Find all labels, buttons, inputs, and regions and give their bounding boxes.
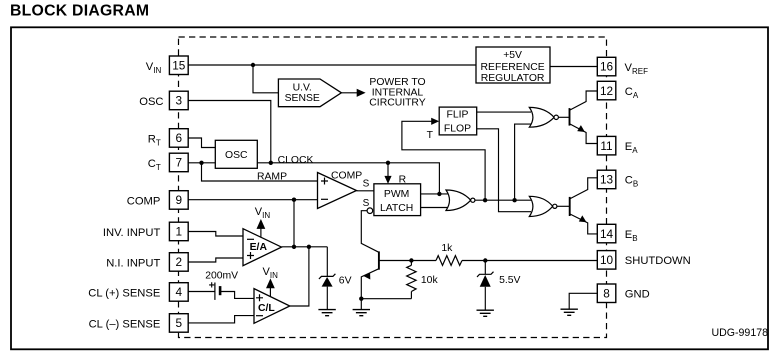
svg-text:5.5V: 5.5V	[499, 275, 520, 286]
resistor 1k	[436, 256, 462, 266]
svg-text:200mV: 200mV	[205, 270, 238, 281]
wire QA collector to pin12	[570, 91, 598, 110]
wire R reset stub to PWM latch	[387, 163, 389, 177]
pin 7 CT box	[169, 153, 188, 172]
LEFT PIN LABELS	[88, 61, 163, 331]
pin 15 VIN box	[169, 56, 188, 75]
latch Sbar input bubble	[367, 208, 373, 214]
+5V reference regulator block	[476, 47, 550, 83]
svg-text:R: R	[399, 175, 407, 186]
wire COMP line down to E/A output	[293, 200, 295, 247]
wire emitter node to 10k bottom	[361, 298, 411, 300]
pin 13 CB box	[597, 170, 616, 189]
PWM latch block	[374, 184, 421, 216]
svg-text:CIRCUITRY: CIRCUITRY	[369, 98, 425, 109]
oscillator block OSC	[215, 140, 257, 168]
svg-text:RAMP: RAMP	[257, 172, 287, 183]
svg-text:8: 8	[603, 287, 610, 301]
comparator COMP	[318, 173, 357, 209]
transistor Q3 base bar	[378, 251, 380, 269]
flip flop block	[439, 107, 477, 135]
zener 6V bar	[319, 274, 336, 279]
svg-text:N.I. INPUT: N.I. INPUT	[106, 257, 160, 269]
svg-text:11: 11	[600, 139, 612, 153]
ground under 6V zener	[318, 310, 335, 316]
battery 200mV	[215, 283, 220, 300]
pin 4 CL+ box	[169, 283, 188, 302]
C/L minus	[256, 315, 263, 317]
wire T feedback loop to flip flop	[402, 121, 485, 200]
svg-text:E/A: E/A	[250, 242, 268, 253]
svg-text:12: 12	[600, 84, 613, 98]
wire VIN branch to U.V. sense	[253, 65, 278, 93]
pin 5 CL- box	[169, 314, 188, 333]
svg-text:15: 15	[172, 59, 186, 73]
E/A plus	[247, 252, 254, 259]
svg-text:14: 14	[600, 227, 614, 241]
SIGNAL LABELS	[205, 130, 520, 286]
wire pin5 to C/L minus	[188, 316, 254, 323]
svg-text:3: 3	[176, 94, 183, 108]
BLOCKS	[215, 47, 550, 323]
wire QB emitter to pin14	[570, 214, 598, 234]
node T feedback	[483, 198, 487, 202]
wire 5.5V zener top	[484, 261, 486, 275]
comparator minus	[321, 198, 328, 200]
svg-text:2: 2	[176, 255, 183, 269]
svg-text:INV. INPUT: INV. INPUT	[103, 227, 161, 239]
svg-text:PWM: PWM	[384, 189, 409, 200]
pin 16 VREF box	[597, 57, 616, 76]
zener 5.5V bar	[477, 272, 494, 277]
svg-text:1k: 1k	[441, 243, 453, 254]
svg-text:4: 4	[176, 285, 183, 299]
transistor QB base bar	[569, 197, 571, 216]
U.V. sense block	[278, 79, 341, 107]
wire C/L output up to E/A output	[290, 247, 309, 306]
svg-text:GND: GND	[625, 289, 650, 301]
wire latch Sbar to Q3 collector	[361, 211, 379, 253]
pin 1 INV box	[169, 222, 188, 241]
GROUNDS	[318, 309, 578, 316]
pin 8 GND box	[597, 284, 616, 303]
wire 10k top	[410, 261, 412, 266]
wire U.V. sense output to arrow	[341, 92, 358, 94]
arrow U.V. to power text	[357, 89, 366, 97]
svg-text:7: 7	[176, 156, 183, 170]
op-amp E/A	[243, 229, 282, 266]
node CT ramp branch	[199, 161, 203, 165]
arrow VIN into E/A	[257, 220, 264, 237]
C/L plus	[256, 294, 263, 301]
AMP POLARITY MARKS	[247, 178, 328, 316]
comparator plus	[321, 178, 328, 185]
IC boundary dashed box	[179, 37, 607, 338]
TRANSISTORS	[379, 108, 570, 270]
ground for GND pin	[561, 309, 578, 315]
node clock latch join	[437, 192, 441, 196]
svg-text:CL (+) SENSE: CL (+) SENSE	[88, 287, 160, 299]
pin 14 EB box	[597, 224, 616, 243]
wire RT pin6 to OSC block	[188, 138, 215, 148]
pin 2 NI box	[169, 253, 188, 272]
wire latch output top to NOR U4	[421, 193, 448, 195]
ground under 5.5V zener	[477, 310, 494, 316]
node E/A C/L join	[307, 245, 311, 249]
wire RAMP to comparator	[202, 163, 318, 181]
wire pin8 GND to ground	[569, 293, 597, 309]
svg-text:10k: 10k	[421, 275, 439, 286]
NOR gate U4 (shutdown OR)	[446, 190, 471, 211]
svg-text:6: 6	[176, 131, 183, 145]
node OSC sync	[269, 161, 273, 165]
wire battery to C/L plus	[220, 292, 254, 299]
emitter arrow Q3	[363, 273, 370, 280]
svg-text:OSC: OSC	[139, 96, 163, 108]
GATES	[367, 107, 558, 216]
wire CT pin7 to OSC block	[188, 162, 215, 164]
wire OSC pin3 to clock line	[188, 101, 270, 163]
RIGHT PIN LABELS	[625, 62, 691, 301]
BLOCK TEXTS	[225, 50, 545, 214]
svg-text:13: 13	[600, 173, 614, 187]
svg-text:LATCH: LATCH	[380, 203, 413, 214]
node Q3 emitter 10k	[359, 297, 363, 301]
pin 6 RT box	[169, 129, 188, 148]
svg-text:10: 10	[600, 253, 614, 267]
ground under Q3 emitter	[353, 310, 370, 316]
battery plus sign	[209, 282, 214, 287]
emitter arrow QB	[579, 215, 587, 222]
svg-text:1: 1	[176, 225, 183, 239]
op-amp C/L	[254, 289, 290, 324]
node clock R branch	[386, 161, 390, 165]
wire 6V zener to ground	[326, 287, 328, 310]
ZENERS	[319, 272, 494, 279]
wire COMP pin9 to comparator minus	[188, 199, 317, 201]
wire Q3 base to 1k	[379, 260, 436, 262]
wire to 6V zener	[326, 247, 328, 277]
wire pin2 to E/A plus	[188, 258, 243, 262]
svg-text:FLOP: FLOP	[444, 123, 471, 134]
zener 5.5V triangle	[480, 275, 491, 287]
NOR gate B	[529, 196, 552, 216]
svg-text:CLOCK: CLOCK	[278, 155, 314, 166]
svg-text:C/L: C/L	[258, 303, 275, 314]
svg-text:COMP: COMP	[127, 195, 161, 207]
E/A minus	[247, 238, 254, 240]
wire flip flop Qbar down to NOR B	[477, 129, 531, 212]
svg-text:CL (–) SENSE: CL (–) SENSE	[89, 318, 161, 330]
pin 3 OSC box	[169, 91, 188, 110]
wire CLOCK line	[257, 163, 439, 194]
arrow VIN into C/L	[267, 280, 274, 297]
wire NOR U4 output line	[475, 199, 531, 201]
svg-text:16: 16	[600, 60, 614, 74]
wire NOR B to QB base	[557, 205, 570, 207]
node PWM to NOR A	[512, 198, 516, 202]
wire comparator output to latch S	[357, 190, 374, 192]
node base 10k	[409, 258, 413, 262]
wire pin1 to E/A minus	[188, 232, 243, 237]
svg-text:SHUTDOWN: SHUTDOWN	[625, 255, 691, 267]
pin 11 EA box	[597, 136, 616, 155]
wire 1k to pin10 SHUTDOWN	[462, 260, 597, 262]
node VIN branch	[251, 63, 255, 67]
svg-text:6V: 6V	[339, 275, 352, 286]
arrow R into latch	[384, 176, 391, 184]
wire 5.5V zener to ground	[484, 287, 486, 310]
pin 10 SHUTDOWN box	[597, 251, 616, 270]
pin 9 COMP box	[169, 191, 188, 210]
svg-text:S: S	[363, 179, 370, 190]
svg-text:REFERENCE: REFERENCE	[481, 62, 545, 73]
wire latch output bottom to NOR U4	[421, 207, 448, 209]
wire NOR A to QA base	[558, 116, 569, 118]
svg-text:OSC: OSC	[225, 150, 248, 161]
AMP NAMES	[250, 242, 276, 314]
zener 6V triangle	[322, 277, 333, 287]
wire VIN pin15 to regulator	[188, 64, 476, 66]
resistor 10k	[407, 265, 416, 291]
svg-text:FLIP: FLIP	[447, 110, 469, 121]
arrow T into flip flop	[431, 118, 439, 125]
wire E/A output line	[282, 246, 328, 248]
wire 10k bottom	[410, 292, 412, 299]
svg-text:9: 9	[176, 193, 183, 207]
svg-text:S: S	[363, 198, 370, 209]
NOR gate A	[529, 107, 554, 127]
node COMP branch	[292, 198, 296, 202]
svg-text:5: 5	[176, 316, 183, 330]
wire flip flop Q to NOR A	[477, 111, 531, 113]
node 1k zener shutdown	[483, 258, 487, 262]
RESISTORS	[407, 256, 462, 292]
wire QA emitter to pin11	[570, 124, 598, 144]
wire QB collector to pin13	[570, 178, 598, 199]
wire Q3 emitter to ground	[361, 269, 379, 310]
wire PWM signal up to NOR A lower input	[515, 124, 531, 200]
svg-text:T: T	[427, 130, 434, 141]
pin 12 CA box	[597, 81, 616, 100]
svg-text:COMP: COMP	[331, 171, 362, 182]
transistor QA base bar	[569, 108, 571, 126]
svg-text:BLOCK DIAGRAM: BLOCK DIAGRAM	[10, 3, 149, 20]
svg-text:SENSE: SENSE	[285, 93, 320, 104]
wire regulator to pin16	[550, 66, 597, 68]
emitter arrow QA	[577, 125, 585, 132]
svg-text:UDG-99178: UDG-99178	[711, 327, 768, 339]
svg-text:+5V: +5V	[503, 50, 522, 61]
PIN BOXES	[169, 56, 615, 332]
wire pin4 to battery	[188, 291, 214, 293]
node E/A out 1	[292, 245, 296, 249]
svg-text:REGULATOR: REGULATOR	[481, 73, 545, 84]
